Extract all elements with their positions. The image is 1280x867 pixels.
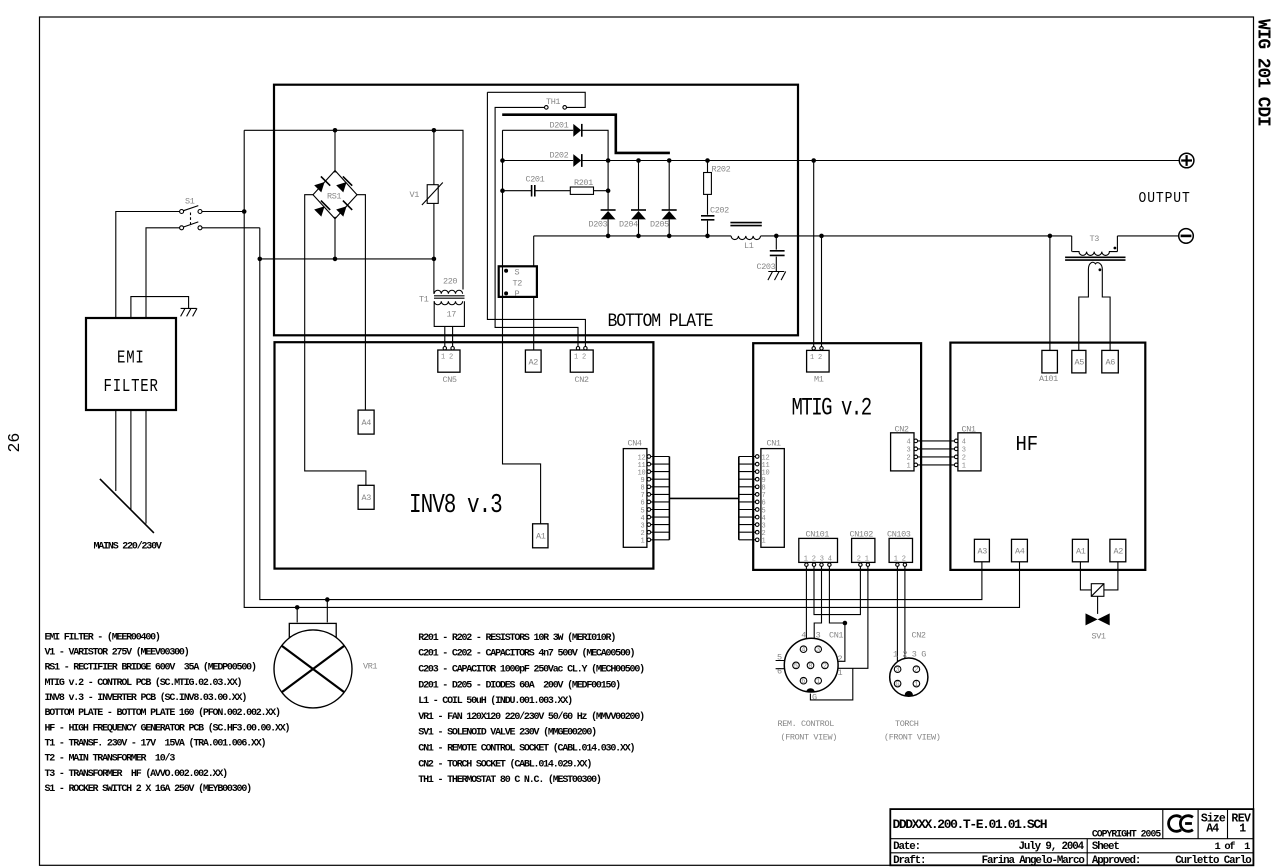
svg-text:R201 - R202 - RESISTORS 10R 3W: R201 - R202 - RESISTORS 10R 3W (MERI010R… xyxy=(418,632,615,644)
svg-text:FILTER: FILTER xyxy=(104,375,159,397)
svg-text:1 2: 1 2 xyxy=(441,354,453,362)
svg-text:6: 6 xyxy=(801,678,805,686)
svg-text:Date:: Date: xyxy=(893,841,920,853)
svg-text:3: 3 xyxy=(962,447,966,455)
svg-text:CN2: CN2 xyxy=(912,631,926,641)
svg-text:CN2 - TORCH SOCKET (CABL.014.0: CN2 - TORCH SOCKET (CABL.014.029.XX) xyxy=(418,758,591,770)
svg-text:S1: S1 xyxy=(185,197,195,207)
svg-text:T3: T3 xyxy=(1090,234,1100,244)
svg-text:(FRONT VIEW): (FRONT VIEW) xyxy=(781,733,837,743)
svg-text:MAINS 220/230V: MAINS 220/230V xyxy=(94,541,162,553)
svg-text:4: 4 xyxy=(907,439,911,447)
svg-text:S1 - ROCKER SWITCH 2 X 16A 250: S1 - ROCKER SWITCH 2 X 16A 250V (MEYB003… xyxy=(45,783,252,795)
svg-text:17: 17 xyxy=(447,310,457,320)
svg-text:CN1 - REMOTE CONTROL SOCKET (C: CN1 - REMOTE CONTROL SOCKET (CABL.014.03… xyxy=(418,743,634,755)
svg-text:1: 1 xyxy=(907,463,911,471)
svg-text:RS1 - RECTIFIER BRIDGE 600V 3: RS1 - RECTIFIER BRIDGE 600V 35A (MEDP005… xyxy=(45,662,256,674)
svg-text:TH1: TH1 xyxy=(546,97,560,107)
svg-text:OUTPUT: OUTPUT xyxy=(1139,191,1191,207)
svg-text:D204: D204 xyxy=(619,220,638,230)
svg-text:G: G xyxy=(812,693,817,703)
svg-text:8: 8 xyxy=(808,663,812,671)
svg-text:4: 4 xyxy=(962,439,966,447)
svg-text:3: 3 xyxy=(816,647,820,655)
svg-text:1 of 1: 1 of 1 xyxy=(1215,841,1251,853)
svg-text:L1: L1 xyxy=(744,241,754,251)
svg-text:(FRONT VIEW): (FRONT VIEW) xyxy=(884,733,940,743)
svg-text:P: P xyxy=(515,289,520,299)
svg-text:A4: A4 xyxy=(1206,823,1219,836)
svg-text:CN4: CN4 xyxy=(628,439,642,449)
svg-text:2: 2 xyxy=(823,663,827,671)
svg-text:4: 4 xyxy=(801,647,805,655)
svg-text:EMI FILTER - (MEER00400): EMI FILTER - (MEER00400) xyxy=(45,631,160,643)
svg-text:D202: D202 xyxy=(550,151,569,161)
svg-text:CN1: CN1 xyxy=(962,425,976,435)
svg-text:C203 - CAPACITOR 1000pF 250Vac: C203 - CAPACITOR 1000pF 250Vac CL.Y (MEC… xyxy=(418,664,644,676)
svg-text:C201 - C202 - CAPACITORS 4n7 5: C201 - C202 - CAPACITORS 4n7 500V (MECA0… xyxy=(418,648,634,660)
svg-text:BOTTOM PLATE: BOTTOM PLATE xyxy=(608,311,714,332)
svg-text:A5: A5 xyxy=(1075,358,1085,368)
svg-text:C202: C202 xyxy=(710,206,729,216)
svg-text:1: 1 xyxy=(1239,823,1246,836)
svg-text:SV1: SV1 xyxy=(1092,632,1106,642)
svg-text:M1: M1 xyxy=(814,375,824,385)
svg-text:TORCH: TORCH xyxy=(895,719,919,729)
svg-text:REM. CONTROL: REM. CONTROL xyxy=(778,719,835,729)
svg-text:T2: T2 xyxy=(513,279,523,289)
svg-text:T1: T1 xyxy=(419,295,429,305)
svg-text:1 2 3 G: 1 2 3 G xyxy=(893,650,926,660)
svg-text:1: 1 xyxy=(641,538,645,546)
svg-text:A2: A2 xyxy=(529,358,539,368)
svg-text:HF - HIGH FREQUENCY GENERATOR: HF - HIGH FREQUENCY GENERATOR PCB (SC.HF… xyxy=(45,722,290,734)
svg-text:1: 1 xyxy=(762,538,766,546)
svg-text:CN2: CN2 xyxy=(895,425,909,435)
svg-text:V1: V1 xyxy=(410,190,420,200)
svg-text:T1 - TRANSF. 230V - 17V 15VA: T1 - TRANSF. 230V - 17V 15VA (TRA.001.00… xyxy=(45,737,266,749)
svg-text:1: 1 xyxy=(962,463,966,471)
svg-text:1 2: 1 2 xyxy=(810,354,822,362)
svg-text:T2 - MAIN TRANSFORMER 10/3: T2 - MAIN TRANSFORMER 10/3 xyxy=(45,753,176,765)
svg-text:CN2: CN2 xyxy=(575,375,589,385)
svg-text:220: 220 xyxy=(443,277,457,287)
svg-text:CN103: CN103 xyxy=(887,530,911,540)
svg-text:V1 - VARISTOR 275V (MEEV00300): V1 - VARISTOR 275V (MEEV00300) xyxy=(45,647,189,659)
svg-text:L1 - COIL 50uH (INDU.001.003.X: L1 - COIL 50uH (INDU.001.003.XX) xyxy=(418,695,572,707)
svg-text:3: 3 xyxy=(907,447,911,455)
svg-text:1: 1 xyxy=(838,668,843,678)
svg-text:CN5: CN5 xyxy=(443,375,457,385)
svg-text:S: S xyxy=(515,268,520,278)
svg-text:Sheet: Sheet xyxy=(1092,841,1120,853)
svg-text:DDDXXX.200.T-E.01.01.SCH: DDDXXX.200.T-E.01.01.SCH xyxy=(893,817,1047,832)
svg-text:MTIG v.2: MTIG v.2 xyxy=(792,394,872,422)
svg-text:1 2: 1 2 xyxy=(574,354,586,362)
svg-text:R202: R202 xyxy=(712,165,731,175)
svg-text:A3: A3 xyxy=(362,493,372,503)
svg-text:COPYRIGHT 2005: COPYRIGHT 2005 xyxy=(1092,828,1161,839)
svg-text:A1: A1 xyxy=(1076,547,1086,557)
svg-text:Farina Angelo-Marco: Farina Angelo-Marco xyxy=(982,855,1085,867)
svg-text:T3 - TRANSFORMER HF (AVVO.002: T3 - TRANSFORMER HF (AVVO.002.002.XX) xyxy=(45,768,228,780)
svg-text:BOTTOM PLATE - BOTTOM PLATE 16: BOTTOM PLATE - BOTTOM PLATE 160 (PFON.00… xyxy=(45,707,280,719)
svg-text:EMI: EMI xyxy=(117,347,145,369)
svg-text:1 2 3 4: 1 2 3 4 xyxy=(804,556,832,564)
svg-text:A1: A1 xyxy=(536,532,546,542)
svg-text:A3: A3 xyxy=(978,547,988,557)
svg-text:A2: A2 xyxy=(1114,547,1124,557)
svg-text:2: 2 xyxy=(914,667,918,675)
svg-text:G: G xyxy=(895,681,899,689)
svg-text:CN1: CN1 xyxy=(829,631,843,641)
svg-text:TH1 - THERMOSTAT 80 C N.C. (ME: TH1 - THERMOSTAT 80 C N.C. (MEST00300) xyxy=(418,774,601,786)
svg-text:5: 5 xyxy=(794,663,798,671)
svg-text:C203: C203 xyxy=(757,262,776,272)
svg-text:MTIG v.2 - CONTROL PCB (SC.MTI: MTIG v.2 - CONTROL PCB (SC.MTIG.02.03.XX… xyxy=(45,677,242,689)
svg-text:D201 - D205 - DIODES 60A 200V: D201 - D205 - DIODES 60A 200V (MEDF00150… xyxy=(418,679,620,691)
svg-text:1: 1 xyxy=(816,678,820,686)
svg-text:INV8 v.3: INV8 v.3 xyxy=(409,491,502,521)
svg-text:2: 2 xyxy=(907,455,911,463)
svg-text:WIG 201 CDI: WIG 201 CDI xyxy=(1253,19,1273,126)
svg-text:D203: D203 xyxy=(589,220,608,230)
svg-text:2: 2 xyxy=(962,455,966,463)
svg-text:3: 3 xyxy=(816,631,821,641)
svg-text:A6: A6 xyxy=(1106,358,1116,368)
svg-text:2 1: 2 1 xyxy=(857,556,869,564)
svg-text:4: 4 xyxy=(801,631,806,641)
svg-text:CN101: CN101 xyxy=(806,530,830,540)
svg-text:July 9, 2004: July 9, 2004 xyxy=(1019,841,1085,853)
svg-text:1: 1 xyxy=(914,681,918,689)
svg-text:INV8 v.3 - INVERTER PCB (SC.IN: INV8 v.3 - INVERTER PCB (SC.INV8.03.00.X… xyxy=(45,692,247,704)
svg-text:3: 3 xyxy=(895,667,899,675)
svg-text:Curletto Carlo: Curletto Carlo xyxy=(1175,855,1251,867)
svg-text:C201: C201 xyxy=(526,175,545,185)
svg-text:D205: D205 xyxy=(650,220,669,230)
svg-text:RS1: RS1 xyxy=(327,192,341,202)
svg-text:1 2: 1 2 xyxy=(894,556,906,564)
svg-text:CN1: CN1 xyxy=(767,439,781,449)
svg-text:6: 6 xyxy=(777,667,782,677)
svg-text:VR1: VR1 xyxy=(363,662,377,672)
svg-text:A101: A101 xyxy=(1039,374,1058,384)
svg-text:SV1 - SOLENOID VALVE 230V (MMG: SV1 - SOLENOID VALVE 230V (MMGE00200) xyxy=(418,727,596,739)
svg-text:Approved:: Approved: xyxy=(1092,855,1140,867)
svg-text:2: 2 xyxy=(838,654,843,664)
svg-text:26: 26 xyxy=(5,433,24,453)
svg-text:CN102: CN102 xyxy=(850,530,874,540)
svg-text:VR1 - FAN 120X120 220/230V 50/: VR1 - FAN 120X120 220/230V 50/60 Hz (MMV… xyxy=(418,711,644,723)
svg-text:A4: A4 xyxy=(362,418,372,428)
svg-text:D201: D201 xyxy=(550,121,569,131)
svg-text:A4: A4 xyxy=(1015,547,1025,557)
svg-text:HF: HF xyxy=(1016,432,1038,456)
svg-text:Draft:: Draft: xyxy=(893,855,925,867)
